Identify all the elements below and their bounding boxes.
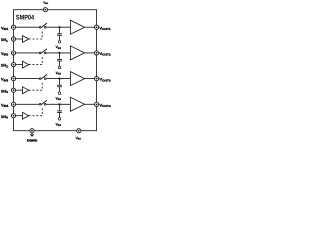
output terminal VOUT2	[95, 51, 99, 55]
wire SH3 to buffer B3	[16, 89, 23, 91]
switch S3 (sample switch)	[39, 75, 47, 80]
output terminal VOUT4	[95, 102, 99, 106]
wire amp A2 to VOUT2	[85, 52, 95, 54]
switch S4 (sample switch)	[39, 100, 47, 105]
svg-text:SH1: SH1	[1, 38, 8, 43]
svg-text:VOUT2: VOUT2	[99, 52, 111, 57]
power terminal VSS	[77, 129, 81, 133]
ground terminal DGND	[30, 129, 34, 133]
VSS return terminal channel 3	[58, 92, 61, 95]
node hold-cap junction channel 2	[58, 52, 60, 54]
wire amp A1 to VOUT1	[85, 26, 95, 28]
svg-text:VOUT1: VOUT1	[99, 26, 111, 31]
capacitor C4 (hold cap)	[57, 104, 62, 117]
wire switch S3 to amp A3	[46, 78, 70, 80]
wire VIN1 to switch	[16, 26, 40, 28]
dashed control line B4 to switch S4	[29, 107, 43, 116]
wire SH1 to buffer B1	[16, 38, 23, 40]
op-amp A2 (output buffer)	[70, 46, 84, 60]
dashed control line B3 to switch S3	[29, 81, 43, 90]
svg-text:VIN4: VIN4	[1, 103, 8, 108]
VSS return terminal channel 1	[58, 41, 61, 44]
wire amp A4 to VOUT4	[85, 103, 95, 105]
wire SH2 to buffer B2	[16, 64, 23, 66]
capacitor C2 (hold cap)	[57, 53, 62, 66]
svg-text:SH4: SH4	[1, 115, 8, 120]
output terminal VOUT3	[95, 77, 99, 81]
svg-text:VOUT4: VOUT4	[99, 103, 111, 108]
buffer B4 (switch driver)	[23, 112, 29, 119]
svg-text:VSS: VSS	[56, 71, 62, 76]
capacitor C3 (hold cap)	[57, 79, 62, 92]
input terminal VIN2	[11, 51, 15, 55]
node hold-cap junction channel 1	[58, 26, 60, 28]
input terminal VIN4	[11, 102, 15, 106]
VSS return terminal channel 2	[58, 66, 61, 69]
dashed control line B2 to switch S2	[29, 55, 43, 64]
wire amp A3 to VOUT3	[85, 78, 95, 80]
svg-text:SH3: SH3	[1, 89, 8, 94]
input terminal VIN3	[11, 77, 15, 81]
control input terminal SH2	[11, 63, 15, 67]
capacitor C1 (hold cap)	[57, 27, 62, 40]
wire switch S4 to amp A4	[46, 103, 70, 105]
input terminal VIN1	[11, 25, 15, 29]
control input terminal SH4	[11, 114, 15, 118]
buffer B1 (switch driver)	[23, 36, 29, 43]
switch S2 (sample switch)	[39, 49, 47, 54]
ground arrow DGND	[30, 133, 34, 137]
node hold-cap junction channel 3	[58, 78, 60, 80]
svg-text:VIN2: VIN2	[1, 52, 8, 57]
svg-text:DGND: DGND	[27, 138, 38, 142]
node hold-cap junction channel 4	[58, 103, 60, 105]
control input terminal SH1	[11, 37, 15, 41]
svg-text:VSS: VSS	[56, 122, 62, 127]
IC body U1 SMP04 outline	[14, 10, 97, 131]
op-amp A4 (output buffer)	[70, 97, 84, 111]
svg-text:VIN1: VIN1	[1, 26, 8, 31]
wire VIN2 to switch	[16, 52, 40, 54]
switch S1 (sample switch)	[39, 23, 47, 28]
svg-text:SH2: SH2	[1, 64, 8, 69]
svg-text:VSS: VSS	[76, 136, 82, 141]
output terminal VOUT1	[95, 25, 99, 29]
svg-text:VSS: VSS	[56, 45, 62, 50]
svg-text:VSS: VSS	[56, 97, 62, 102]
wire VIN3 to switch	[16, 78, 40, 80]
buffer B2 (switch driver)	[23, 61, 29, 68]
op-amp A1 (output buffer)	[70, 20, 84, 34]
VSS return terminal channel 4	[58, 118, 61, 121]
op-amp A3 (output buffer)	[70, 72, 84, 86]
svg-text:VDD: VDD	[43, 1, 48, 6]
svg-text:VIN3: VIN3	[1, 78, 8, 83]
svg-text:SMP04: SMP04	[16, 15, 34, 22]
wire switch S2 to amp A2	[46, 52, 70, 54]
buffer B3 (switch driver)	[23, 87, 29, 94]
dashed control line B1 to switch S1	[29, 30, 43, 39]
wire switch S1 to amp A1	[46, 26, 70, 28]
wire VIN4 to switch	[16, 103, 40, 105]
control input terminal SH3	[11, 88, 15, 92]
power terminal VDD	[43, 8, 47, 12]
svg-text:VOUT3: VOUT3	[99, 78, 111, 83]
wire SH4 to buffer B4	[16, 115, 23, 117]
